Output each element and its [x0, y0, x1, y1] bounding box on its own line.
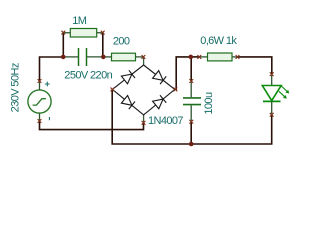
wire 1M right leg [102, 33, 104, 57]
svg-text:250V 220n: 250V 220n [64, 69, 112, 81]
LED bottom pin [271, 102, 273, 115]
wire 100u top connection [190, 57, 192, 81]
junction dot at 100u top [189, 55, 194, 60]
resistor 1k left pin [199, 56, 207, 58]
diode D3 bar [160, 95, 166, 103]
junction dot at 1M/220n right [101, 55, 106, 60]
svg-text:100u: 100u [203, 92, 215, 115]
bridge bottom pin [143, 115, 145, 123]
resistor 1M left pin [63, 32, 70, 34]
capacitor 100u bottom pin [190, 105, 192, 121]
diode D4 bottom-left triangle [121, 96, 131, 106]
AC source V1 circle [28, 90, 51, 113]
diode D4 bar [129, 102, 135, 110]
wire 1M left leg [62, 33, 64, 57]
wire LED cathode to bottom rail to bridge left vertex [112, 89, 272, 144]
resistor 1k right pin [232, 56, 238, 58]
resistor 200 right pin [136, 56, 144, 58]
resistor R2 200 box [112, 53, 136, 61]
pin connection x markers [38, 79, 42, 83]
capacitor 100u bottom plate [183, 104, 201, 106]
resistor R3 1k box [208, 53, 233, 61]
bridge rectifier diamond [112, 65, 174, 115]
LED triangle [262, 86, 281, 101]
wire 100u-junction to 1k pin [191, 56, 200, 58]
capacitor 220n right pin [87, 56, 104, 58]
AC source bottom pin [39, 113, 41, 121]
wire 100u bottom connection [190, 122, 192, 144]
wire source bottom to bridge bottom vertex [40, 121, 144, 130]
diode D3 bottom-right triangle [153, 99, 164, 109]
AC source waveform [33, 99, 46, 105]
LED D5 top pin [271, 74, 273, 85]
svg-text:230V 50Hz: 230V 50Hz [10, 63, 22, 112]
LED cathode bar [263, 100, 281, 102]
capacitor 220n left pin [63, 56, 78, 58]
label + [45, 82, 50, 87]
diode D1 bar [129, 70, 135, 78]
wire from source top to 1M/220n junction [40, 57, 64, 81]
diode D2 top-right triangle [153, 71, 164, 81]
capacitor 100u top plate [183, 97, 201, 99]
svg-text:200: 200 [113, 36, 130, 48]
capacitor C1 220n left plate [78, 48, 80, 66]
capacitor C2 100u top pin [190, 81, 192, 97]
capacitor C1 220n right plate [86, 48, 88, 66]
diode D1 top-left triangle [121, 74, 131, 84]
junction dot at 100u bottom [189, 142, 194, 147]
resistor 200 left pin [104, 56, 112, 58]
resistor 1M right pin [97, 32, 103, 34]
svg-text:0,6W 1k: 0,6W 1k [200, 35, 237, 47]
svg-text:1N4007: 1N4007 [148, 115, 183, 127]
svg-text:1M: 1M [72, 15, 87, 27]
diode D2 bar [160, 76, 166, 84]
bridge top pin [143, 57, 145, 65]
wire bridge right vertex to top-right rail [175, 57, 190, 90]
LED arrow 2 [279, 91, 285, 97]
LED arrow 1 [281, 86, 287, 92]
AC source top pin [39, 81, 41, 90]
wire 1k to LED top corner [238, 57, 272, 74]
resistor R1 1M box [70, 29, 96, 38]
label - (rotated) [48, 117, 50, 120]
junction dot at 1M/220n left [61, 55, 66, 60]
